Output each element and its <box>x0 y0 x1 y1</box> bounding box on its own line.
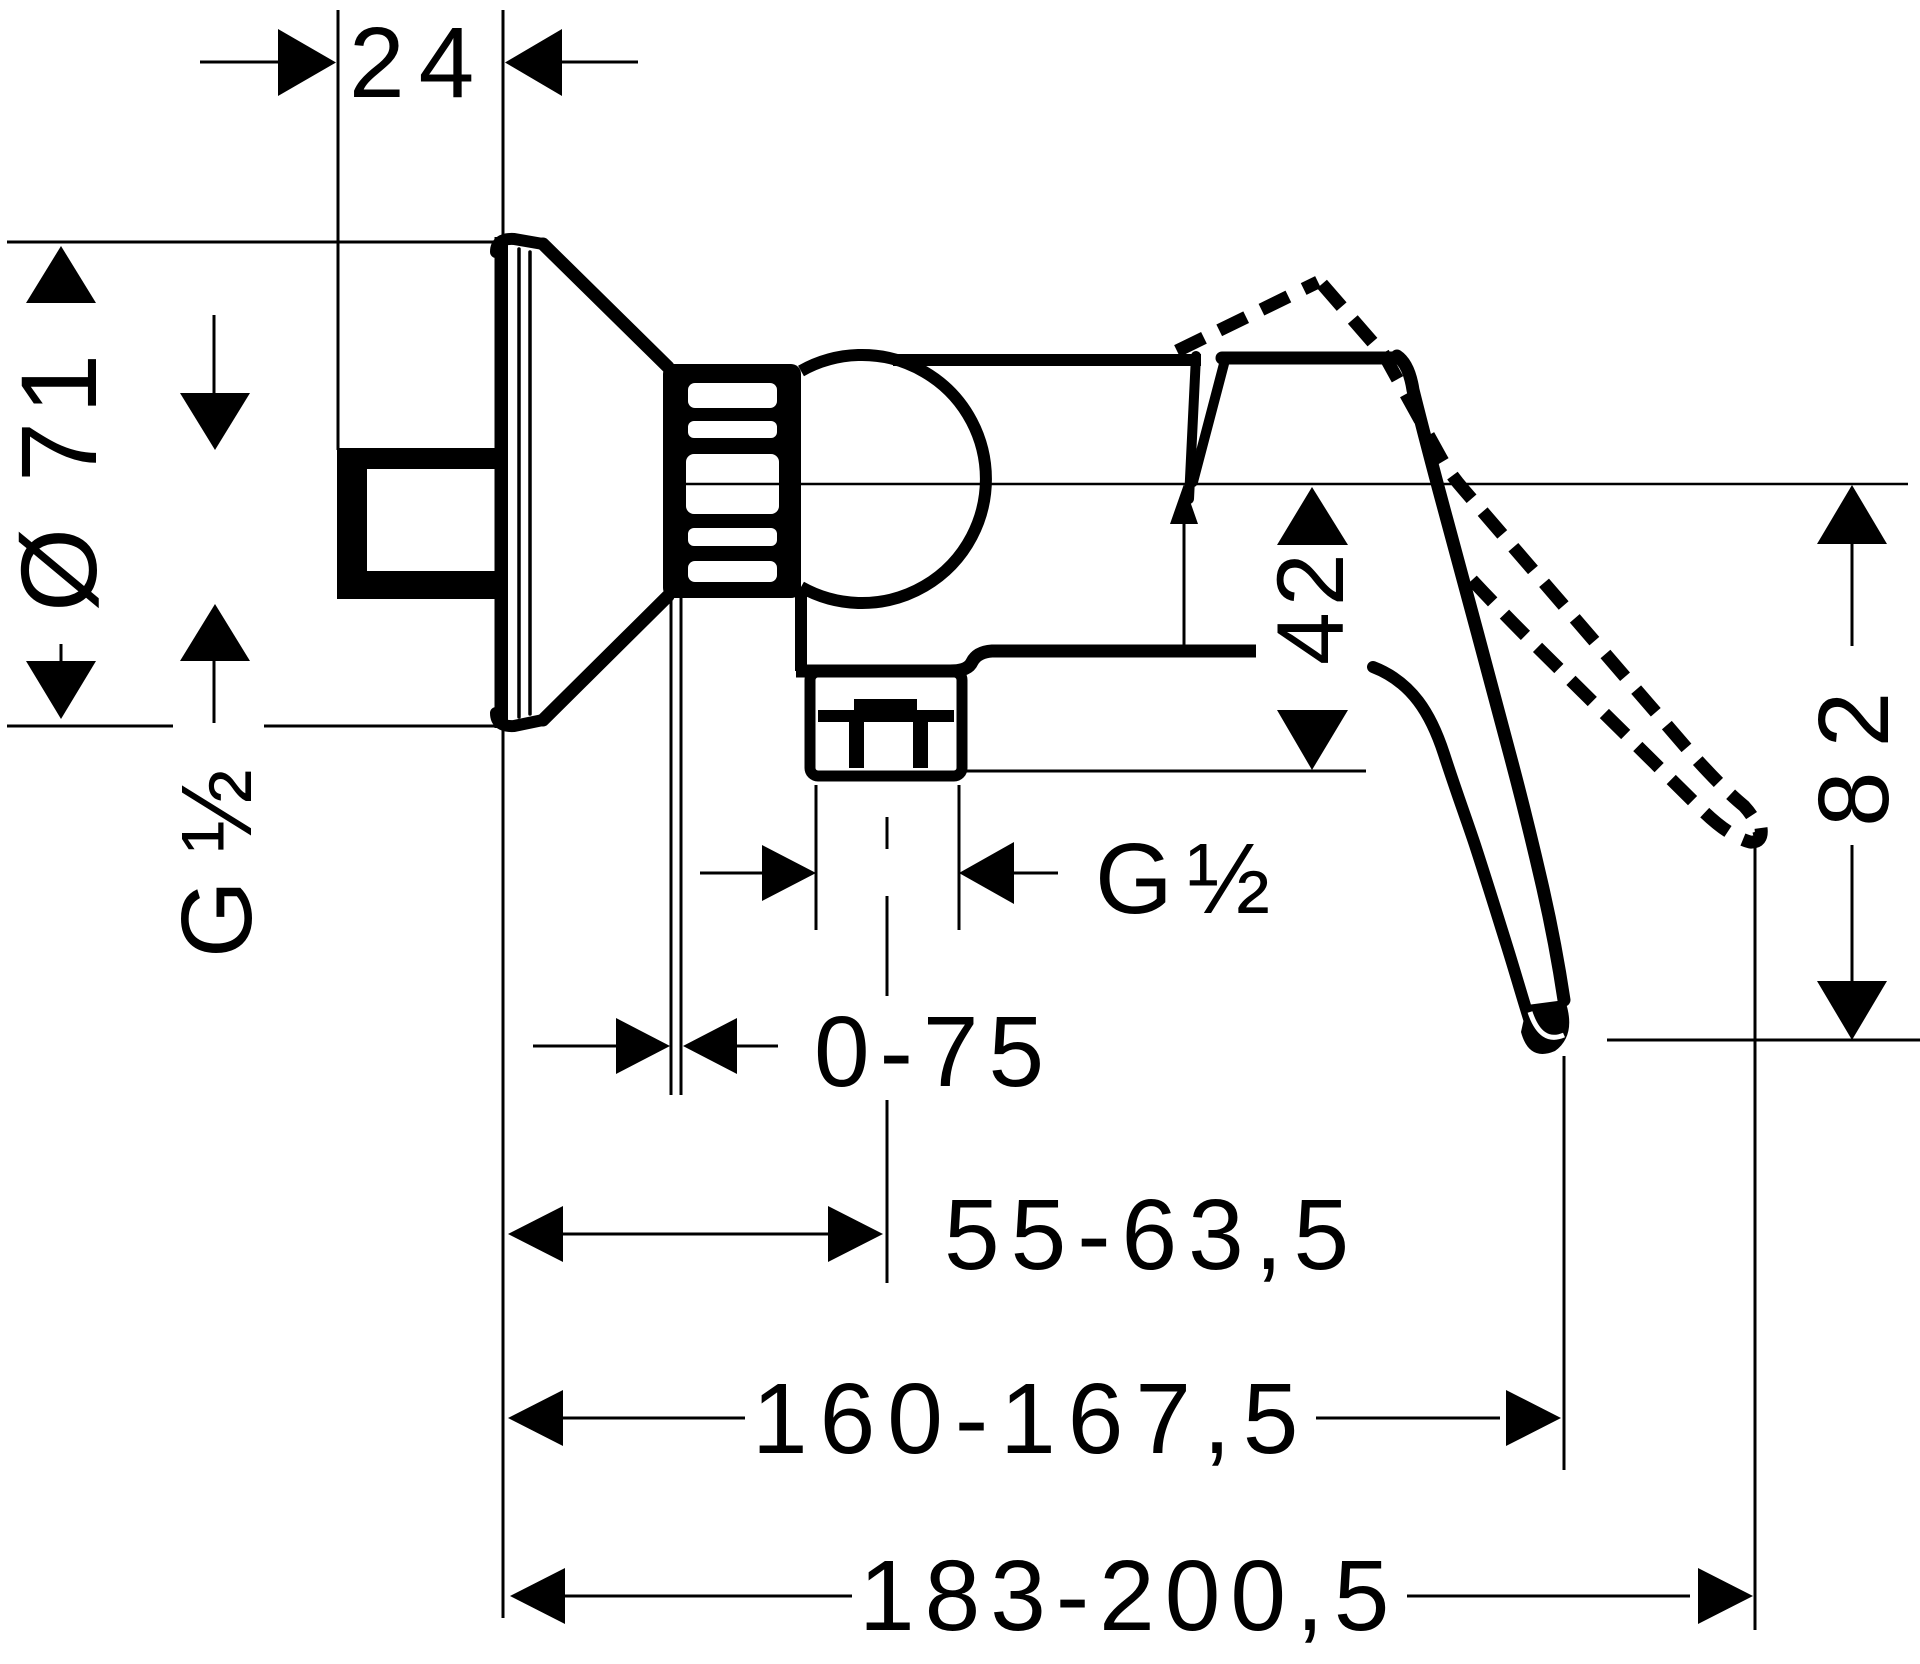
svg-text:0-75: 0-75 <box>814 996 1054 1108</box>
svg-text:82: 82 <box>1798 668 1910 827</box>
svg-text:55-63,5: 55-63,5 <box>944 1179 1360 1291</box>
svg-text:Ø 71: Ø 71 <box>0 346 119 612</box>
svg-text:183-200,5: 183-200,5 <box>859 1540 1399 1652</box>
svg-text:G: G <box>1095 823 1173 935</box>
svg-text:½: ½ <box>1187 823 1270 935</box>
svg-text:160-167,5: 160-167,5 <box>752 1363 1310 1475</box>
svg-text:24: 24 <box>349 7 488 119</box>
svg-text:G ½: G ½ <box>161 769 273 958</box>
svg-text:42: 42 <box>1258 547 1364 665</box>
